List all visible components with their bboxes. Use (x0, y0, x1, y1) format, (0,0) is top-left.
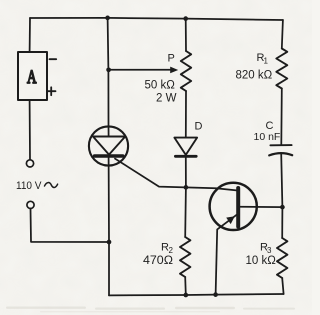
transistor emitter arrowhead (226, 216, 235, 224)
svg-text:10 kΩ: 10 kΩ (246, 255, 277, 267)
svg-text:50 kΩ: 50 kΩ (145, 79, 176, 91)
transistor emitter with arrow (216, 215, 237, 295)
wire capacitor to node (281, 153, 282, 238)
wire rail to SCR anode (107, 18, 110, 127)
SCR anode lead inside (108, 127, 110, 137)
wire base to C/R3 node (240, 206, 282, 208)
wire rail to potentiometer top (185, 19, 187, 51)
AC terminal lower (27, 201, 34, 208)
wire left branch upper (rail to ammeter) (29, 18, 31, 52)
resistor R3 10k body (277, 238, 287, 278)
transistor base bar (236, 188, 240, 227)
potentiometer P 50k body (181, 51, 191, 91)
wire lower AC terminal to cathode node (31, 209, 110, 242)
SCR V1 body (89, 126, 128, 165)
node top rail SCR branch (105, 16, 110, 21)
ammeter plus terminal label (47, 87, 56, 95)
resistor R1 820k body (276, 49, 287, 89)
ammeter minus terminal label (50, 58, 57, 60)
resistor R2 470 body (180, 237, 190, 277)
wire bottom rail (109, 294, 284, 295)
diode D triangle (174, 138, 197, 155)
node AC-cathode junction (107, 240, 112, 245)
svg-text:D: D (195, 121, 203, 133)
svg-text:110 V: 110 V (16, 180, 42, 192)
wire R2 to bottom rail (184, 277, 187, 295)
110V sine symbol (45, 183, 58, 188)
wire R3 to bottom rail (282, 278, 283, 294)
wire rail right corner to R1 (282, 20, 283, 49)
wire SCR gate to transistor (115, 159, 236, 191)
svg-text:1: 1 (264, 57, 269, 66)
transistor Q1 body (210, 183, 257, 230)
svg-text:2 W: 2 W (156, 92, 177, 104)
wire ammeter to upper AC terminal (29, 100, 31, 160)
svg-text:A: A (27, 68, 37, 88)
svg-text:P: P (168, 53, 175, 65)
wire R1 to capacitor (280, 89, 283, 145)
node base-C-R3 junction (280, 205, 285, 210)
wire top rail (30, 18, 283, 20)
wire diode to R2 (184, 156, 187, 237)
node gate junction (184, 185, 189, 190)
scan ghost of cropped caption (6, 307, 295, 313)
wire SCR cathode down (108, 158, 110, 296)
node R2 bottom rail (183, 293, 188, 298)
svg-text:2: 2 (169, 246, 174, 255)
wire wiper to potentiometer (109, 69, 171, 71)
svg-text:10 nF: 10 nF (254, 131, 281, 143)
node emitter bottom rail (213, 292, 218, 297)
svg-text:470Ω: 470Ω (143, 255, 173, 267)
SCR triangle (93, 137, 125, 155)
capacitor C bottom plate (269, 153, 292, 155)
svg-text:820 kΩ: 820 kΩ (236, 70, 273, 82)
diode D cathode bar (175, 155, 196, 158)
wire potentiometer to diode (185, 91, 187, 138)
svg-text:3: 3 (267, 246, 272, 255)
SCR cathode bar (95, 154, 123, 157)
potentiometer wiper arrowhead (170, 67, 178, 74)
node top rail pot branch (183, 16, 188, 21)
node wiper junction (106, 67, 111, 72)
AC terminal upper (26, 160, 33, 167)
ammeter A (18, 52, 47, 100)
capacitor C top plate (270, 144, 291, 146)
